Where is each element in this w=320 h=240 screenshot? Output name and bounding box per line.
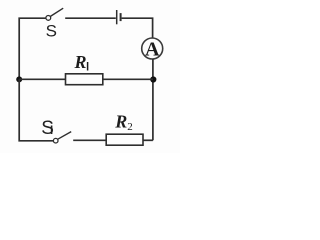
wire battery to top-right corner down to ammeter — [122, 18, 153, 38]
wire R1 to right node — [103, 78, 153, 80]
svg-text:S: S — [46, 21, 57, 40]
junction dot left — [16, 76, 22, 82]
wire R2 to bottom-right corner — [143, 139, 153, 141]
svg-text:2: 2 — [127, 121, 133, 133]
battery short plate — [120, 13, 122, 21]
junction dot right — [150, 76, 156, 82]
wire top-left segment (corner to switch S) — [19, 18, 45, 79]
wire ammeter to junction to bottom-right corner — [152, 59, 154, 140]
resistor R2 box — [106, 134, 143, 145]
switch S lever — [50, 8, 63, 16]
label S1 subscript — [51, 126, 53, 135]
switch S pivot circle — [46, 16, 51, 21]
wire bottom-left corner to switch S1 — [19, 79, 53, 141]
switch S1 lever — [58, 132, 71, 140]
battery long plate — [116, 10, 118, 24]
svg-text:R: R — [74, 52, 87, 72]
svg-text:R: R — [114, 112, 127, 132]
wire switch S1 to R2 — [73, 139, 106, 141]
svg-text:A: A — [145, 38, 160, 60]
label R1 subscript — [87, 62, 89, 71]
switch S1 pivot circle — [53, 138, 58, 143]
resistor R1 box — [66, 74, 103, 85]
wire switch S to battery — [65, 17, 116, 19]
ammeter A circle — [142, 38, 163, 59]
wire left node to R1 — [19, 78, 65, 80]
